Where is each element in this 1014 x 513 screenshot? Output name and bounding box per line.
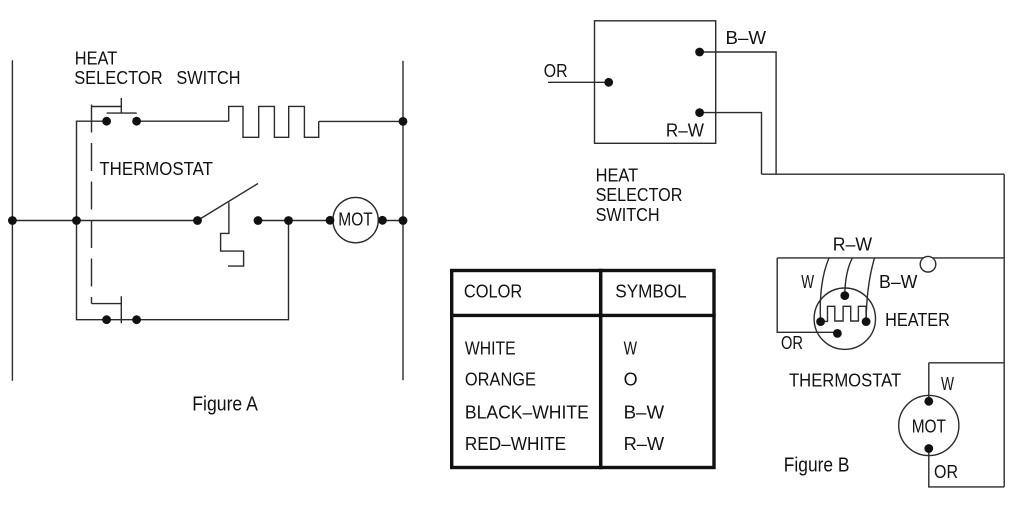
- table outer border: [452, 271, 714, 468]
- svg-text:W: W: [801, 272, 814, 292]
- node dot wire start: [254, 216, 263, 225]
- svg-text:BLACK–WHITE: BLACK–WHITE: [465, 402, 589, 422]
- node dot motor / right rail: [399, 216, 408, 225]
- svg-text:HEAT: HEAT: [596, 165, 639, 185]
- thermostat blade: [198, 184, 259, 221]
- contact dot S1a right: [132, 117, 141, 126]
- wire W lead curve: [820, 258, 829, 322]
- wire horizontal run: [762, 173, 1005, 175]
- motor M1 circle: [333, 197, 378, 242]
- terminal dot R-W: [695, 108, 704, 117]
- svg-text:SWITCH: SWITCH: [596, 205, 660, 225]
- svg-text:R–W: R–W: [833, 234, 872, 254]
- node dot heater / right rail: [399, 117, 408, 126]
- svg-text:O: O: [624, 369, 638, 389]
- wire motor top stub: [928, 363, 930, 402]
- node dot left rail / middle wire: [8, 216, 17, 225]
- svg-text:SYMBOL: SYMBOL: [615, 282, 686, 302]
- wire heater to right rail: [319, 120, 403, 122]
- svg-text:R–W: R–W: [666, 120, 704, 140]
- heater square wave element (Figure B): [821, 306, 867, 321]
- svg-text:Figure A: Figure A: [192, 394, 258, 416]
- svg-text:SWITCH: SWITCH: [176, 68, 240, 88]
- svg-text:B–W: B–W: [624, 402, 665, 422]
- wire motor to right rail: [378, 220, 403, 222]
- svg-text:MOT: MOT: [338, 210, 373, 230]
- contact dot S1b left: [102, 315, 111, 324]
- svg-text:R–W: R–W: [624, 434, 665, 454]
- svg-text:COLOR: COLOR: [464, 282, 522, 302]
- wire middle horizontal: [12, 220, 197, 222]
- svg-text:W: W: [624, 338, 637, 358]
- terminal dot motor W: [924, 397, 933, 406]
- terminal dot heater R-W: [840, 291, 849, 300]
- terminal dot motor OR: [924, 444, 933, 453]
- terminal dot heater B-W: [862, 317, 871, 326]
- thermostat bimetal step: [221, 202, 244, 266]
- node dot sub-rail / middle wire: [72, 216, 81, 225]
- svg-text:W: W: [941, 374, 954, 394]
- node dot branch junction: [284, 216, 293, 225]
- wire OR input: [548, 81, 609, 83]
- switch S1b bar (heat selector switch lower pole): [120, 296, 122, 323]
- svg-text:THERMOSTAT: THERMOSTAT: [789, 371, 901, 391]
- wire B-W lead curve: [866, 258, 874, 322]
- svg-text:ORANGE: ORANGE: [465, 369, 536, 389]
- switch S1a stem: [120, 98, 122, 113]
- color/symbol table: [450, 269, 716, 469]
- wire right vertical run: [1003, 174, 1005, 487]
- svg-text:B–W: B–W: [726, 28, 767, 48]
- wire motor W lead: [929, 362, 1004, 364]
- svg-text:SELECTOR: SELECTOR: [596, 185, 683, 205]
- svg-text:OR: OR: [781, 333, 803, 353]
- switch S1b link arm: [92, 303, 122, 305]
- wire thermostat top: [777, 257, 1004, 259]
- svg-text:THERMOSTAT: THERMOSTAT: [99, 159, 213, 179]
- svg-text:WHITE: WHITE: [465, 338, 516, 358]
- wire thermostat to motor: [258, 220, 333, 222]
- wire switch to heater: [137, 120, 229, 122]
- contact dot S1b right: [132, 315, 141, 324]
- wire B-W from switch: [700, 52, 777, 174]
- switch S1a link arm: [92, 106, 122, 108]
- svg-text:Figure B: Figure B: [784, 454, 850, 476]
- terminal dot OR input: [604, 78, 613, 87]
- wire bottom branch to motor node: [137, 221, 289, 320]
- terminal dot motor left: [326, 216, 335, 225]
- svg-text:RED–WHITE: RED–WHITE: [465, 434, 566, 454]
- heater element HTR1 (square wave): [229, 106, 319, 137]
- terminal dot motor right: [378, 216, 387, 225]
- svg-text:HEATER: HEATER: [885, 310, 950, 330]
- wire R-W from switch: [700, 113, 762, 175]
- svg-text:OR: OR: [934, 462, 958, 482]
- mechanical link (dashed): [91, 105, 93, 304]
- svg-text:OR: OR: [544, 61, 568, 81]
- contact dot S1a left: [102, 117, 111, 126]
- table header divider: [450, 314, 716, 317]
- wire right rail (Figure A L2): [402, 61, 404, 380]
- heat selector switch box (Figure B): [595, 21, 716, 144]
- svg-text:MOT: MOT: [912, 417, 946, 437]
- wire R-W lead curve: [845, 258, 853, 296]
- wire OR to thermostat common: [777, 258, 836, 332]
- contact dot thermostat: [193, 216, 202, 225]
- wire left rail (Figure A L1): [11, 60, 13, 381]
- terminal dot heater W: [816, 317, 825, 326]
- motor M2 circle (Figure B): [899, 395, 959, 455]
- terminal dot B-W: [695, 48, 704, 57]
- switch S1a bar (heat selector switch upper pole): [107, 112, 137, 114]
- svg-text:HEAT: HEAT: [75, 49, 117, 69]
- svg-text:B–W: B–W: [879, 272, 917, 292]
- table column divider: [599, 269, 603, 469]
- wire motor OR lead: [929, 449, 1004, 487]
- svg-text:SELECTOR: SELECTOR: [74, 68, 162, 88]
- unused terminal (open circle): [920, 256, 936, 272]
- terminal dot thermostat OR: [833, 329, 842, 338]
- wire sub-rail loop (top wire, left branch, bottom wire): [77, 121, 137, 320]
- heater/thermostat circle: [814, 288, 875, 349]
